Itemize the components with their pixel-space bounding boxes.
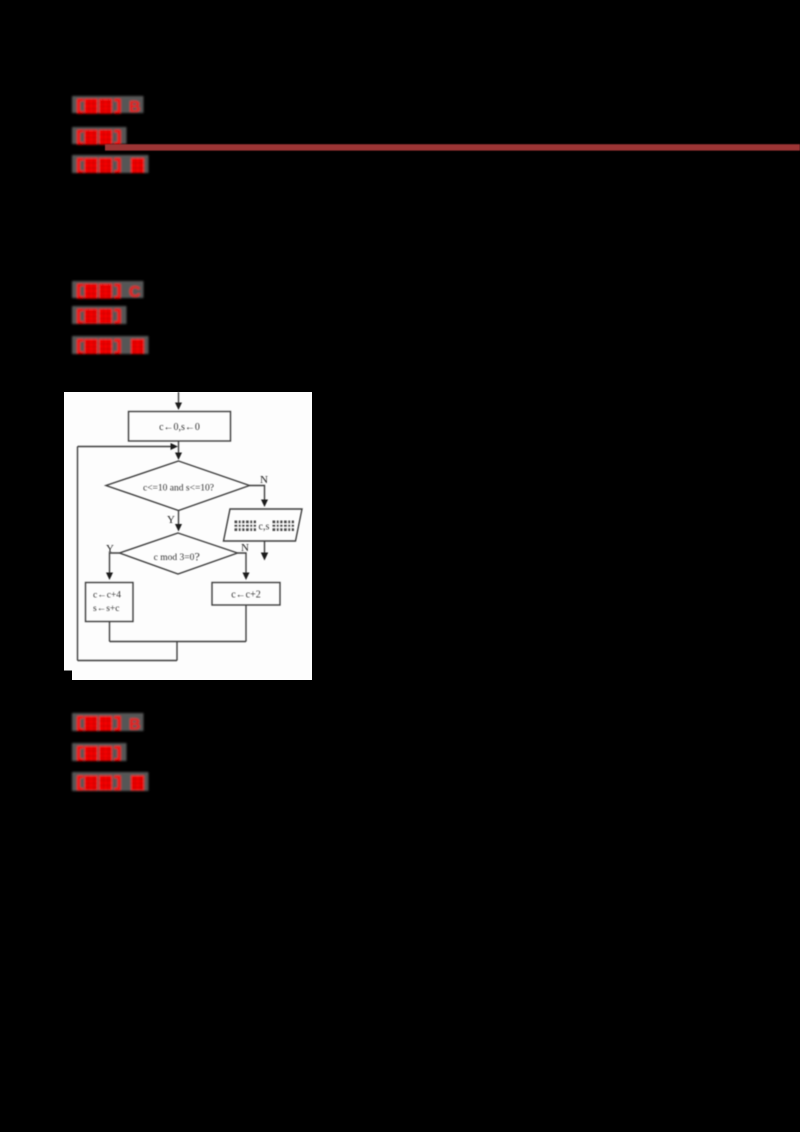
process box c←c+2 <box>212 583 280 606</box>
bottom wire to loop <box>78 660 178 662</box>
wire below right box <box>245 605 247 642</box>
red text 【答案】B <box>77 99 141 117</box>
highlight box 1.3 <box>72 155 149 173</box>
highlight box 2.1 <box>72 281 144 298</box>
red text 【详解】略 <box>77 158 144 173</box>
svg-text:N: N <box>260 474 268 486</box>
svg-text:c←c+4: c←c+4 <box>93 591 121 601</box>
process box c←c+4 s←s+c <box>86 583 134 622</box>
svg-text:B: B <box>129 717 141 734</box>
N branch wire into right box <box>238 553 250 580</box>
arrow decision1 to decision2 <box>175 511 182 532</box>
decision 1 diamond c<=10 and s<=10? <box>106 461 250 511</box>
highlight box 1.1 <box>72 96 144 113</box>
process box c←0,s←0 <box>129 412 231 442</box>
trunk arrow into decision 1 <box>175 441 182 460</box>
svg-text:B: B <box>129 99 141 116</box>
output parallelogram 输出c,s的值 <box>224 509 303 541</box>
white panel <box>64 392 312 680</box>
red text 【解析】 <box>77 746 121 761</box>
highlight box 2.2 <box>72 306 127 324</box>
svg-text:?: ? <box>195 550 200 564</box>
highlight box 3.2 <box>72 743 127 761</box>
highlight box 1.2 <box>72 127 127 144</box>
loop return arrow into trunk <box>78 443 179 450</box>
red text 【答案】C <box>77 284 141 302</box>
red text 【解析】 <box>77 309 121 324</box>
decision 2 diamond c mod 3=0? <box>120 533 238 574</box>
wire below left box <box>109 622 111 642</box>
svg-text:c←c+2: c←c+2 <box>231 590 261 601</box>
merge drop wire <box>176 642 178 661</box>
red text 【答案】B <box>77 716 141 734</box>
red text 【解析】 <box>77 130 121 145</box>
dark red horizontal rule <box>105 144 800 150</box>
svg-text:c←0,s←0: c←0,s←0 <box>159 422 200 433</box>
highlight box 3.1 <box>72 713 144 731</box>
red text 【详解】略 <box>77 339 144 354</box>
N branch wire to output <box>250 486 269 508</box>
svg-text:C: C <box>129 284 141 301</box>
svg-text:s←s+c: s←s+c <box>93 604 119 614</box>
svg-text:c<=10 and s<=10?: c<=10 and s<=10? <box>143 484 214 494</box>
svg-text:c,s: c,s <box>259 522 270 533</box>
highlight box 3.3 <box>72 772 149 791</box>
loop-back left vertical wire <box>77 447 79 661</box>
start arrow into init box <box>175 392 182 410</box>
exit arrow below output <box>261 541 268 561</box>
Y branch wire into left box <box>106 553 120 580</box>
highlight box 2.3 <box>72 336 149 354</box>
black notch bottom-left of panel <box>64 671 72 681</box>
svg-text:Y: Y <box>167 514 175 526</box>
svg-text:c mod 3=0: c mod 3=0 <box>154 553 195 563</box>
merge wire horizontal <box>110 641 247 643</box>
red text 【详解】略 <box>77 776 144 791</box>
svg-text:N: N <box>241 542 249 554</box>
